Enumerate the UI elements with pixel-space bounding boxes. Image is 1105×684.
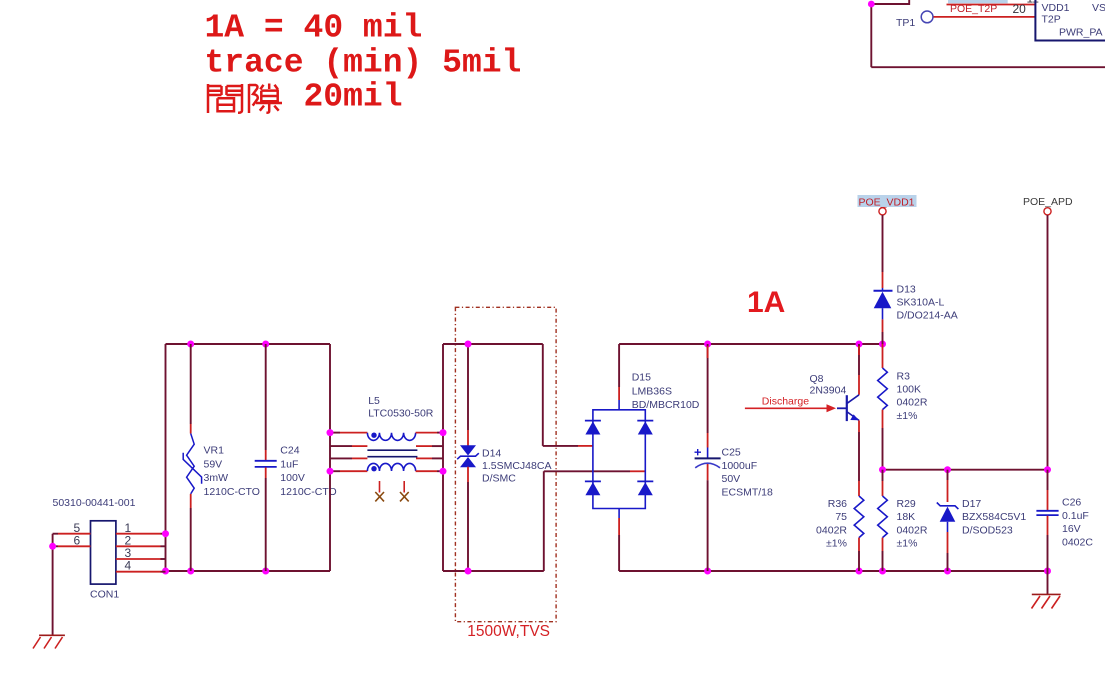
svg-text:C25: C25: [722, 447, 741, 459]
node dots D14: [465, 341, 472, 348]
svg-text:D17: D17: [962, 498, 981, 510]
wire top rail middle segment: [443, 343, 543, 345]
svg-text:Discharge: Discharge: [762, 396, 809, 408]
winding 1 return stubs: [330, 445, 443, 447]
svg-text:0402R: 0402R: [897, 397, 928, 409]
svg-text:POE_VDD1: POE_VDD1: [859, 196, 915, 208]
wire right vertical upper (to bridge ac1): [542, 344, 544, 446]
svg-text:D/DO214-AA: D/DO214-AA: [897, 310, 958, 322]
CJK glyph 間 (drawn): [208, 84, 242, 113]
resistor R36: [816, 481, 864, 571]
node dots mid line: [879, 466, 886, 473]
svg-text:±1%: ±1%: [897, 538, 918, 550]
svg-text:PWR_PA: PWR_PA: [1059, 27, 1103, 39]
diode D13 (schottky): [874, 208, 958, 344]
diode D15.1 (top-left): [585, 421, 601, 435]
wire L5 left rail: [329, 344, 331, 571]
svg-text:D13: D13: [897, 283, 916, 295]
varistor VR1: [183, 344, 260, 571]
wire T2P pin (red): [934, 16, 1036, 18]
capacitor C26: [1036, 470, 1093, 571]
no-connect marker 1 under L5: [375, 481, 384, 501]
ground symbol left: [33, 635, 65, 648]
wire bottom rail left segment: [166, 570, 331, 572]
svg-text:R29: R29: [897, 498, 916, 510]
ground symbol right: [1032, 594, 1061, 608]
svg-text:VDD1: VDD1: [1042, 2, 1070, 14]
svg-text:100V: 100V: [280, 472, 305, 484]
svg-text:BZX584C5V1: BZX584C5V1: [962, 511, 1026, 523]
svg-text:20: 20: [1013, 2, 1027, 16]
svg-text:trace (min) 5mil: trace (min) 5mil: [205, 45, 522, 82]
resistor R3: [878, 344, 928, 470]
no-connect marker 2 under L5: [400, 481, 409, 501]
wire to ground from pins 5/6: [52, 534, 54, 636]
node dots at choke terminals: [327, 429, 334, 436]
zener diode D17: [937, 470, 1027, 571]
svg-text:0.1uF: 0.1uF: [1062, 510, 1089, 522]
svg-text:1500W,TVS: 1500W,TVS: [467, 623, 550, 640]
junction dot pins 5-6: [49, 543, 56, 550]
node dots bottom rail: [704, 568, 711, 575]
svg-text:ECSMT/18: ECSMT/18: [722, 486, 774, 498]
svg-text:VR1: VR1: [204, 445, 225, 457]
annotation Discharge: [745, 396, 836, 413]
net flag POE_APD: [1023, 196, 1073, 215]
svg-text:R3: R3: [897, 370, 911, 382]
svg-text:1210C-CTO: 1210C-CTO: [280, 486, 336, 498]
svg-text:Q8: Q8: [810, 373, 824, 385]
winding 2 (bottom): [330, 463, 443, 471]
svg-text:TP1: TP1: [896, 17, 915, 29]
transistor Q8: [810, 344, 860, 481]
node dots top rail: [704, 341, 711, 348]
wire left vertical: [165, 344, 167, 571]
svg-text:1000uF: 1000uF: [722, 460, 758, 472]
svg-text:75: 75: [835, 511, 847, 523]
wire mid horizontal node: [883, 469, 1048, 471]
capacitor C24: [255, 344, 337, 571]
svg-text:50V: 50V: [722, 473, 741, 485]
svg-text:1A = 40 mil: 1A = 40 mil: [205, 10, 423, 47]
wire (maroon) top-right corner net: [871, 0, 1105, 67]
CON1 pin 5 wire: [53, 533, 91, 535]
wire bridge ac input 1: [543, 445, 593, 447]
svg-text:T2P: T2P: [1042, 14, 1061, 26]
wire top rail right segment: [619, 343, 882, 345]
wire right vertical lower (to bridge ac2): [543, 471, 545, 571]
svg-text:SK310A-L: SK310A-L: [897, 297, 945, 309]
wire bottom rail middle segment: [443, 570, 544, 572]
svg-text:R36: R36: [828, 498, 847, 510]
core lines: [367, 450, 417, 457]
svg-text:±1%: ±1%: [897, 410, 918, 422]
svg-text:D/SOD523: D/SOD523: [962, 524, 1013, 536]
wire top rail left segment: [166, 343, 331, 345]
wire bridge ac input 2: [544, 470, 646, 472]
dashed annotation box 1500W TVS: [455, 307, 556, 621]
svg-text:20mil: 20mil: [304, 79, 403, 116]
capacitor C25 (polarized): [695, 344, 774, 571]
diode D15.2 (top-right): [637, 421, 653, 435]
CON1 pin 6 wire: [53, 545, 91, 547]
choke L5: [330, 395, 443, 471]
svg-text:POE_T2P: POE_T2P: [950, 3, 997, 15]
svg-text:1uF: 1uF: [280, 458, 298, 470]
wire VDD1 pin (red): [947, 4, 1036, 6]
svg-text:LMB36S: LMB36S: [632, 385, 672, 397]
diode D15.3 (bottom-left): [585, 481, 601, 495]
CON1 pin 2 wire: [116, 545, 166, 547]
svg-text:±1%: ±1%: [826, 538, 847, 550]
test point TP1: [896, 11, 933, 29]
svg-text:2N3904: 2N3904: [810, 384, 847, 396]
junction dot pins 1-2: [162, 530, 169, 537]
svg-text:0402C: 0402C: [1062, 536, 1093, 548]
svg-text:C24: C24: [280, 445, 299, 457]
node dots on left rails: [187, 341, 194, 348]
svg-text:1A: 1A: [747, 286, 785, 319]
svg-text:0402R: 0402R: [816, 524, 847, 536]
net highlight POE_T2P upper (cut off): [948, 0, 1008, 3]
svg-text:VS: VS: [1092, 2, 1105, 14]
svg-text:3mW: 3mW: [204, 472, 229, 484]
svg-text:1.5SMCJ48CA: 1.5SMCJ48CA: [482, 460, 551, 472]
svg-text:1210C-CTO: 1210C-CTO: [204, 486, 260, 498]
svg-text:LTC0530-50R: LTC0530-50R: [368, 407, 434, 419]
TVS diode D14: [457, 344, 551, 571]
winding 1 (top): [330, 433, 443, 441]
svg-text:0402R: 0402R: [897, 524, 928, 536]
svg-text:POE_APD: POE_APD: [1023, 196, 1073, 208]
wire bottom rail right segment: [619, 570, 1047, 572]
svg-text:L5: L5: [368, 395, 380, 407]
resistor R29: [878, 470, 928, 571]
junction dot: [868, 1, 875, 8]
svg-text:C26: C26: [1062, 497, 1081, 509]
svg-text:50310-00441-001: 50310-00441-001: [53, 497, 136, 509]
svg-text:4: 4: [125, 559, 132, 573]
net flag POE_VDD1 (highlighted): [858, 195, 917, 208]
svg-text:D15: D15: [632, 372, 651, 384]
svg-text:100K: 100K: [897, 384, 922, 396]
bridge + output stub: [618, 344, 620, 410]
annotation red text top-left: [205, 10, 522, 116]
connector CON1: [53, 497, 136, 601]
svg-text:D/SMC: D/SMC: [482, 472, 516, 484]
svg-text:CON1: CON1: [90, 589, 119, 601]
diode D15.4 (bottom-right): [637, 481, 653, 495]
CON1 pin 3 wire: [116, 558, 166, 560]
svg-text:16V: 16V: [1062, 523, 1081, 535]
bridge - output stub: [618, 509, 620, 572]
wire POE_APD vertical: [1047, 215, 1049, 470]
svg-text:18K: 18K: [897, 511, 916, 523]
winding 2 return stubs: [330, 457, 443, 459]
IC U? box edge (partial): [1035, 0, 1105, 41]
CON1 pin 1 wire: [116, 533, 166, 535]
svg-text:11: 11: [1027, 0, 1040, 5]
bridge frame: [593, 410, 645, 509]
wire L5 right rail: [442, 344, 444, 571]
svg-text:D14: D14: [482, 448, 501, 460]
CON1 pin 4 wire: [116, 571, 166, 573]
CJK glyph 隙 (drawn): [249, 84, 282, 114]
wire stub to right ground: [1047, 571, 1049, 594]
svg-text:59V: 59V: [204, 458, 223, 470]
